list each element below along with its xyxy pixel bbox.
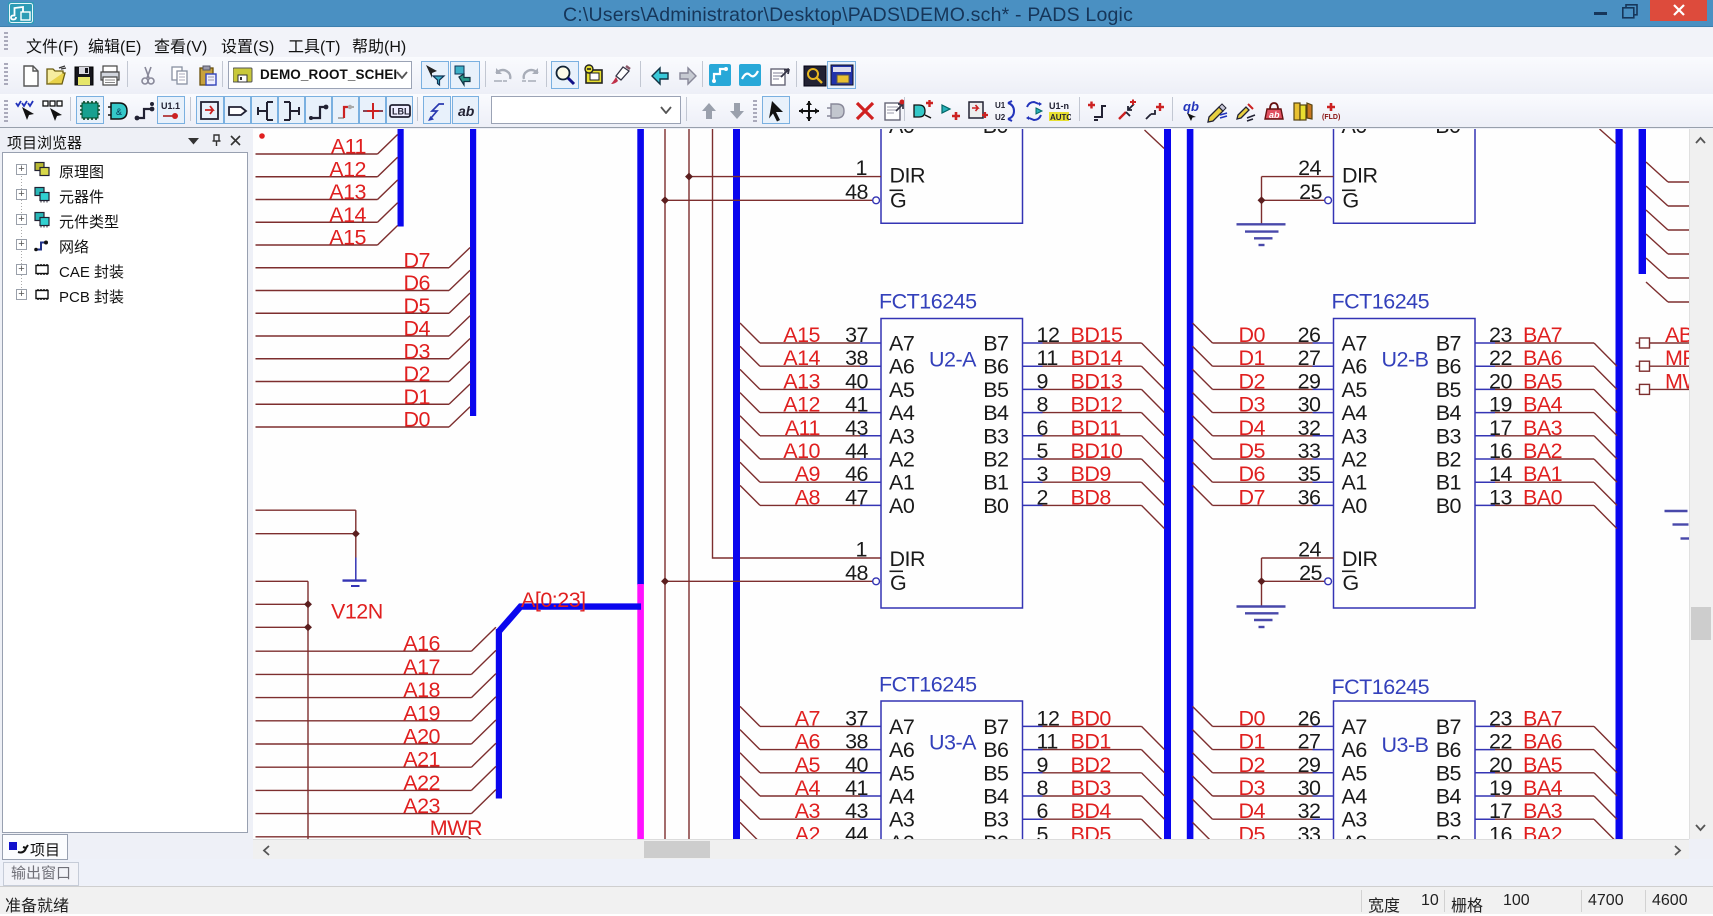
svg-text:BD12: BD12 xyxy=(1071,393,1123,417)
ground symbol (top, U2-B DIR/G) xyxy=(1237,224,1286,245)
pin 37 (A7) of U2-A, net A15 xyxy=(740,323,914,356)
svg-text:D3: D3 xyxy=(404,339,431,363)
pin 26 (A7) of U2-B, net D0 xyxy=(1193,323,1367,356)
svg-text:A0: A0 xyxy=(889,129,915,138)
svg-text:11: 11 xyxy=(1037,730,1058,754)
pin 36 (A0) of U2-B, net D7 xyxy=(1193,485,1368,518)
svg-text:BD4: BD4 xyxy=(1071,799,1112,823)
wire net A11 with label xyxy=(256,135,398,159)
svg-text:B2: B2 xyxy=(983,831,1008,839)
pin 43 (A3) of U3-A, net A3 xyxy=(740,799,915,832)
svg-text:20: 20 xyxy=(1489,753,1512,777)
svg-text:A1: A1 xyxy=(1342,471,1367,495)
svg-text:DIR: DIR xyxy=(890,164,926,188)
svg-text:A4: A4 xyxy=(889,401,915,425)
svg-text:D1: D1 xyxy=(404,385,430,409)
svg-text:37: 37 xyxy=(845,323,868,347)
part type label FCT16245 for U3-B xyxy=(1332,675,1430,699)
pin 2 (B0) of U2-A, net BD8 xyxy=(983,485,1164,528)
svg-text:19: 19 xyxy=(1489,776,1512,800)
pin name A0 (clipped) of top-right IC xyxy=(1342,114,1368,138)
svg-text:44: 44 xyxy=(845,439,868,463)
svg-text:32: 32 xyxy=(1298,416,1321,440)
svg-text:B3: B3 xyxy=(1436,424,1462,448)
svg-text:B0: B0 xyxy=(1435,129,1461,138)
svg-text:3: 3 xyxy=(1037,462,1049,486)
svg-text:B6: B6 xyxy=(983,738,1009,762)
svg-text:33: 33 xyxy=(1298,439,1321,463)
wire net D6 with label xyxy=(256,270,471,295)
svg-text:A22: A22 xyxy=(403,771,440,795)
pin 38 (A6) of U2-A, net A14 xyxy=(740,346,915,379)
svg-text:40: 40 xyxy=(845,369,868,393)
svg-text:BA7: BA7 xyxy=(1523,706,1562,730)
IC U3-A (FCT16245) xyxy=(881,701,1023,846)
svg-text:FCT16245: FCT16245 xyxy=(1332,675,1430,699)
svg-text:B4: B4 xyxy=(983,785,1009,809)
svg-text:B5: B5 xyxy=(983,761,1009,785)
pin 6 (B3) of U2-A, net BD11 xyxy=(983,416,1164,459)
pin 40 (A5) of U3-A, net A5 xyxy=(740,753,915,786)
ground symbol (right edge, clipped) xyxy=(1665,511,1690,539)
pin 24 (DIR) of U2-B: wire from ground net xyxy=(1262,538,1334,606)
svg-text:A19: A19 xyxy=(403,701,440,725)
pin 8 (B4) of U2-A, net BD12 xyxy=(983,393,1164,436)
pin 41 (A4) of U2-A, net A12 xyxy=(740,393,915,426)
wire net A23 with label xyxy=(256,790,496,819)
svg-text:A13: A13 xyxy=(329,180,366,204)
svg-text:U1.1: U1.1 xyxy=(161,101,180,111)
pin 16 (B2) of U3-B, net BA2 xyxy=(1436,822,1617,865)
svg-text:22: 22 xyxy=(1489,730,1512,754)
bus A[0:23] main vertical (upper blue part) xyxy=(637,129,644,585)
reference designator label U2-B xyxy=(1382,348,1429,372)
pin 29 (A5) of U2-B, net D2 xyxy=(1193,369,1368,402)
pin 9 (B5) of U3-A, net BD2 xyxy=(983,753,1164,796)
svg-text:D2: D2 xyxy=(1239,753,1265,777)
svg-text:A[0:23]: A[0:23] xyxy=(521,588,586,612)
svg-text:A15: A15 xyxy=(329,226,366,250)
bus feeding U2-B/U3-B inputs xyxy=(1187,129,1194,839)
net name label A[0:23] xyxy=(521,588,586,612)
pin 37 (A7) of U3-A, net A7 xyxy=(740,706,914,739)
net label V12N xyxy=(331,600,383,624)
svg-text:D4: D4 xyxy=(404,317,431,341)
svg-text:47: 47 xyxy=(845,485,868,509)
svg-text:BA5: BA5 xyxy=(1523,369,1563,393)
bus exit stub 3 from short bus xyxy=(1646,210,1689,230)
svg-text:B6: B6 xyxy=(1436,738,1462,762)
pin 5 (B2) of U2-A, net BD10 xyxy=(983,439,1164,482)
pin 19 (B4) of U2-B, net BA4 xyxy=(1436,393,1617,436)
svg-text:B0: B0 xyxy=(983,494,1009,518)
svg-text:D7: D7 xyxy=(1239,485,1265,509)
wire net A20 with label xyxy=(256,720,496,749)
bus BA[0:7] xyxy=(1616,129,1623,839)
reference designator label U3-B xyxy=(1382,733,1429,757)
bus exit stub 4 from short bus xyxy=(1646,234,1689,254)
part type label FCT16245 for U2-A xyxy=(879,290,977,314)
pin 23 (B7) of U2-B, net BA7 xyxy=(1436,323,1617,366)
svg-text:D2: D2 xyxy=(1239,369,1265,393)
svg-text:BA4: BA4 xyxy=(1523,776,1563,800)
svg-text:qb: qb xyxy=(1183,99,1199,114)
svg-text:A3: A3 xyxy=(889,424,915,448)
svg-text:A13: A13 xyxy=(783,369,820,393)
svg-text:14: 14 xyxy=(1489,462,1512,486)
svg-text:A6: A6 xyxy=(795,730,821,754)
svg-text:36: 36 xyxy=(1298,485,1321,509)
svg-text:A7: A7 xyxy=(889,332,914,356)
svg-text:FCT16245: FCT16245 xyxy=(879,290,977,314)
bus feeding U2-A/U3-A inputs xyxy=(733,129,740,839)
svg-text:U2: U2 xyxy=(995,113,1006,122)
bus exit stub 6 from short bus xyxy=(1646,282,1689,302)
IC U2 top section (partially scrolled off) xyxy=(881,129,1023,223)
svg-text:A18: A18 xyxy=(403,678,440,702)
svg-text:B3: B3 xyxy=(1436,808,1462,832)
pin 48 (G) of top-left IC with bubble xyxy=(665,180,906,213)
svg-text:&: & xyxy=(116,107,122,117)
svg-text:43: 43 xyxy=(845,416,868,440)
svg-text:D2: D2 xyxy=(404,362,430,386)
svg-text:A11: A11 xyxy=(331,135,366,159)
pin 22 (B6) of U3-B, net BA6 xyxy=(1436,730,1617,773)
svg-text:BD9: BD9 xyxy=(1071,462,1111,486)
svg-text:A3: A3 xyxy=(1342,424,1368,448)
svg-text:B3: B3 xyxy=(983,424,1009,448)
pin 35 (A1) of U2-B, net D6 xyxy=(1193,462,1367,495)
wire net A18 with label xyxy=(256,674,496,703)
svg-text:A4: A4 xyxy=(1342,401,1368,425)
svg-text:A4: A4 xyxy=(795,776,821,800)
junction at (665,200.3) xyxy=(661,196,669,204)
svg-text:41: 41 xyxy=(845,393,868,417)
wire net G48 vertical (x=665) xyxy=(664,129,666,839)
pin 20 (B5) of U2-B, net BA5 xyxy=(1436,369,1617,412)
svg-text:B7: B7 xyxy=(1436,715,1461,739)
svg-text:BA6: BA6 xyxy=(1523,730,1563,754)
pin DIR of U2-A xyxy=(890,547,926,571)
pin 13 (B0) of U2-B, net BA0 xyxy=(1436,485,1617,528)
pin 30 (A4) of U2-B, net D3 xyxy=(1193,393,1368,426)
pin 1 (DIR) of top-left IC, wire from net xyxy=(689,156,925,188)
bus A[11:14] branch (top-left) xyxy=(398,129,404,227)
svg-text:B5: B5 xyxy=(983,378,1009,402)
svg-text:B1: B1 xyxy=(1436,471,1461,495)
wire net A22 with label xyxy=(256,766,496,795)
svg-text:A16: A16 xyxy=(403,632,440,656)
svg-text:17: 17 xyxy=(1489,799,1512,823)
svg-text:33: 33 xyxy=(1298,822,1321,839)
svg-text:B7: B7 xyxy=(983,715,1008,739)
svg-text:B6: B6 xyxy=(1436,355,1462,379)
pin G (active low) of U2-B xyxy=(1342,571,1359,595)
svg-text:A3: A3 xyxy=(795,799,821,823)
svg-text:A6: A6 xyxy=(889,738,915,762)
wire net D1 with label xyxy=(256,384,471,409)
svg-text:A2: A2 xyxy=(1342,831,1367,839)
svg-text:17: 17 xyxy=(1489,416,1512,440)
svg-text:44: 44 xyxy=(845,822,868,839)
wire net A12 with label xyxy=(256,157,398,181)
svg-text:1: 1 xyxy=(856,156,867,180)
pin 25 (G) of top-right IC with bubble xyxy=(1262,180,1359,213)
svg-text:BD5: BD5 xyxy=(1071,822,1112,839)
svg-text:23: 23 xyxy=(1489,323,1512,347)
off-page connector MW xyxy=(1636,369,1704,394)
pin 44 (A2) of U3-A, net A2 xyxy=(740,822,914,855)
pin 16 (B2) of U2-B, net BA2 xyxy=(1436,439,1617,482)
svg-text:D0: D0 xyxy=(1239,706,1266,730)
svg-text:U2-A: U2-A xyxy=(929,348,977,372)
svg-text:32: 32 xyxy=(1298,799,1321,823)
bus D[0:7] branch xyxy=(470,129,476,416)
svg-text:DIR: DIR xyxy=(1342,164,1378,188)
wire net A17 with label xyxy=(256,650,496,679)
junction at (689,176.6) xyxy=(685,173,693,181)
pin 46 (A1) of U2-A, net A9 xyxy=(740,462,914,495)
bus entry diagonal into BD bus (top) xyxy=(1145,130,1165,149)
svg-text:AB: AB xyxy=(1665,323,1689,347)
svg-text:DIR: DIR xyxy=(890,547,926,571)
pin 24 (DIR) of top-right IC, wire to ground net xyxy=(1262,156,1378,224)
pin name B0 (clipped) of top IC xyxy=(983,114,1009,138)
svg-text:BD15: BD15 xyxy=(1071,323,1123,347)
svg-text:A14: A14 xyxy=(783,346,820,370)
svg-text:B4: B4 xyxy=(1436,401,1462,425)
svg-text:25: 25 xyxy=(1299,561,1322,585)
bus A[16:23] left branch vertical xyxy=(496,629,502,799)
wire net D4 with label xyxy=(256,316,471,341)
svg-text:U3-B: U3-B xyxy=(1382,733,1429,757)
svg-text:B1: B1 xyxy=(983,471,1008,495)
IC U2-B top section (partially scrolled off) xyxy=(1334,129,1476,223)
svg-text:6: 6 xyxy=(1037,416,1049,440)
svg-text:B0: B0 xyxy=(983,129,1009,138)
svg-text:G: G xyxy=(890,571,906,595)
junction at (308,627) xyxy=(304,623,312,631)
bus exit stub 5 from short bus xyxy=(1646,258,1689,278)
wire net A15 with label xyxy=(256,226,398,250)
svg-text:D5: D5 xyxy=(1239,822,1266,839)
svg-text:A4: A4 xyxy=(889,785,915,809)
svg-text:A12: A12 xyxy=(329,157,366,181)
pin 26 (A7) of U3-B, net D0 xyxy=(1193,706,1367,739)
svg-text:16: 16 xyxy=(1489,822,1512,839)
svg-text:A5: A5 xyxy=(889,761,915,785)
svg-text:A23: A23 xyxy=(403,794,440,818)
svg-text:D5: D5 xyxy=(1239,439,1266,463)
pin 3 (B1) of U2-A, net BD9 xyxy=(983,462,1164,505)
svg-text:BA2: BA2 xyxy=(1523,822,1562,839)
IC U3-B (FCT16245) xyxy=(1334,701,1476,846)
svg-text:22: 22 xyxy=(1489,346,1512,370)
svg-text:ab: ab xyxy=(1269,110,1280,120)
svg-text:MR: MR xyxy=(1665,346,1689,370)
svg-text:B5: B5 xyxy=(1436,378,1462,402)
wire net A21 with label xyxy=(256,743,496,772)
svg-text:19: 19 xyxy=(1489,393,1512,417)
svg-text:FCT16245: FCT16245 xyxy=(879,673,977,697)
wire stub row 2 xyxy=(256,603,309,605)
svg-text:A6: A6 xyxy=(1342,355,1368,379)
pin 40 (A5) of U2-A, net A13 xyxy=(740,369,915,402)
svg-text:A6: A6 xyxy=(889,355,915,379)
svg-text:A0: A0 xyxy=(889,494,915,518)
svg-text:A2: A2 xyxy=(1342,448,1367,472)
svg-text:D0: D0 xyxy=(1239,323,1266,347)
pin G (active low) of U2-A xyxy=(890,571,907,595)
svg-text:27: 27 xyxy=(1298,730,1321,754)
svg-text:A9: A9 xyxy=(795,462,820,486)
svg-text:40: 40 xyxy=(845,753,868,777)
svg-text:41: 41 xyxy=(845,776,868,800)
wire branch into AGND xyxy=(256,533,356,535)
svg-text:13: 13 xyxy=(1489,485,1512,509)
svg-text:BA5: BA5 xyxy=(1523,753,1563,777)
svg-text:8: 8 xyxy=(1037,776,1049,800)
svg-text:A7: A7 xyxy=(889,715,914,739)
wire net DIR1 vertical (x=689) xyxy=(688,129,690,839)
svg-text:BA2: BA2 xyxy=(1523,439,1562,463)
svg-text:29: 29 xyxy=(1298,369,1321,393)
pin 48 (G) of U2-A: wire, bubble, number xyxy=(665,561,879,585)
svg-text:BA3: BA3 xyxy=(1523,416,1563,440)
svg-text:U2-B: U2-B xyxy=(1382,348,1429,372)
svg-text:38: 38 xyxy=(845,730,868,754)
svg-text:B7: B7 xyxy=(1436,332,1461,356)
ground symbol (U2-B DIR/G lower) xyxy=(1237,607,1286,628)
svg-text:12: 12 xyxy=(1037,706,1060,730)
svg-text:B2: B2 xyxy=(1436,448,1461,472)
svg-text:2: 2 xyxy=(1037,485,1048,509)
svg-text:BA3: BA3 xyxy=(1523,799,1563,823)
bus exit stub 2 from short bus xyxy=(1646,186,1689,206)
svg-text:26: 26 xyxy=(1298,323,1321,347)
pin 9 (B5) of U2-A, net BD13 xyxy=(983,369,1164,412)
svg-text:A0: A0 xyxy=(1342,129,1368,138)
svg-text:A11: A11 xyxy=(785,416,820,440)
pin 33 (A2) of U2-B, net D5 xyxy=(1193,439,1367,472)
svg-text:A5: A5 xyxy=(1342,378,1368,402)
svg-text:A0: A0 xyxy=(1342,494,1368,518)
svg-text:V12N: V12N xyxy=(331,600,383,624)
svg-text:BD0: BD0 xyxy=(1071,706,1112,730)
junction at (1261.5,200.3) xyxy=(1258,196,1266,204)
wire net D2 with label xyxy=(256,361,471,386)
pin 32 (A3) of U3-B, net D4 xyxy=(1193,799,1368,832)
svg-text:D6: D6 xyxy=(404,271,431,295)
part type label FCT16245 for U2-B xyxy=(1332,290,1430,314)
bus short (top right) xyxy=(1639,129,1646,274)
svg-text:30: 30 xyxy=(1298,776,1321,800)
pin 30 (A4) of U3-B, net D3 xyxy=(1193,776,1368,809)
svg-text:D3: D3 xyxy=(1239,776,1266,800)
pin 6 (B3) of U3-A, net BD4 xyxy=(983,799,1164,842)
svg-text:G: G xyxy=(890,188,906,212)
wire net D5 with label xyxy=(256,293,471,318)
svg-text:B3: B3 xyxy=(983,808,1009,832)
pin 1 (DIR) number label of U2-A xyxy=(856,538,867,562)
pin 44 (A2) of U2-A, net A10 xyxy=(740,439,914,472)
wire net D7 with label xyxy=(256,247,471,272)
wire stub row 3 xyxy=(256,626,309,628)
svg-text:BD10: BD10 xyxy=(1071,439,1123,463)
svg-text:6: 6 xyxy=(1037,799,1049,823)
svg-text:A12: A12 xyxy=(783,393,820,417)
junction at (308,604) xyxy=(304,600,312,608)
svg-text:16: 16 xyxy=(1489,439,1512,463)
pin 27 (A6) of U3-B, net D1 xyxy=(1193,730,1368,763)
pin 25 (G) of U2-B: wire, bubble, number xyxy=(1262,561,1332,585)
wire stub row 1 (to V12N node) xyxy=(256,580,309,582)
wire net MWR with label xyxy=(256,816,483,840)
wire net DIR vertical (x=712.5) with corner to U2-A DIR xyxy=(713,129,882,558)
pin name B0 (clipped) of top-right IC xyxy=(1435,114,1461,138)
svg-text:G: G xyxy=(1343,571,1359,595)
wire net D3 with label xyxy=(256,338,471,363)
svg-text:BD11: BD11 xyxy=(1071,416,1121,440)
svg-text:MWR: MWR xyxy=(430,816,482,839)
svg-text:A20: A20 xyxy=(403,725,440,749)
svg-text:29: 29 xyxy=(1298,753,1321,777)
pin 47 (A0) of U2-A, net A8 xyxy=(740,485,915,518)
wire net A19 with label xyxy=(256,697,496,726)
junction at (1261.5,581.3) xyxy=(1258,577,1266,585)
IC U2-B (FCT16245) xyxy=(1334,319,1476,609)
ground AGND symbol (near V12N) xyxy=(343,558,367,587)
pin 22 (B6) of U2-B, net BA6 xyxy=(1436,346,1617,389)
svg-text:D4: D4 xyxy=(1239,799,1266,823)
svg-text:U3-A: U3-A xyxy=(929,731,977,755)
svg-text:11: 11 xyxy=(1037,346,1058,370)
svg-text:D7: D7 xyxy=(404,248,430,272)
pin 12 (B7) of U3-A, net BD0 xyxy=(983,706,1164,749)
svg-text:D1: D1 xyxy=(1239,730,1265,754)
svg-text:B0: B0 xyxy=(1436,494,1462,518)
svg-text:5: 5 xyxy=(1037,822,1049,839)
svg-text:A4: A4 xyxy=(1342,785,1368,809)
IC U2-A (FCT16245) xyxy=(881,319,1023,609)
svg-text:B4: B4 xyxy=(983,401,1009,425)
svg-text:ab: ab xyxy=(458,103,475,119)
bus BD[0:15] xyxy=(1164,129,1171,839)
svg-text:46: 46 xyxy=(845,462,868,486)
pin 12 (B7) of U2-A, net BD15 xyxy=(983,323,1164,366)
bus A[0:23] selected segment (magenta) xyxy=(637,584,644,839)
svg-text:25: 25 xyxy=(1299,180,1322,204)
pin 29 (A5) of U3-B, net D2 xyxy=(1193,753,1368,786)
svg-text:37: 37 xyxy=(845,706,868,730)
bus A[0:23] horizontal labelled segment with corner xyxy=(499,607,641,632)
wire net A16 with label xyxy=(256,627,496,656)
svg-text:B2: B2 xyxy=(983,448,1008,472)
bus exit stub 1 from short bus xyxy=(1646,162,1689,182)
svg-text:BD3: BD3 xyxy=(1071,776,1112,800)
svg-text:A10: A10 xyxy=(783,439,820,463)
svg-text:DIR: DIR xyxy=(1342,547,1378,571)
svg-text:24: 24 xyxy=(1298,156,1321,180)
wire net A13 with label xyxy=(256,180,398,204)
svg-text:MW: MW xyxy=(1665,369,1689,393)
svg-text:35: 35 xyxy=(1298,462,1321,486)
svg-text:5: 5 xyxy=(1037,439,1049,463)
svg-text:A5: A5 xyxy=(795,753,821,777)
svg-text:BD14: BD14 xyxy=(1071,346,1123,370)
svg-text:B7: B7 xyxy=(983,332,1008,356)
wire V12N vertical xyxy=(307,581,309,839)
